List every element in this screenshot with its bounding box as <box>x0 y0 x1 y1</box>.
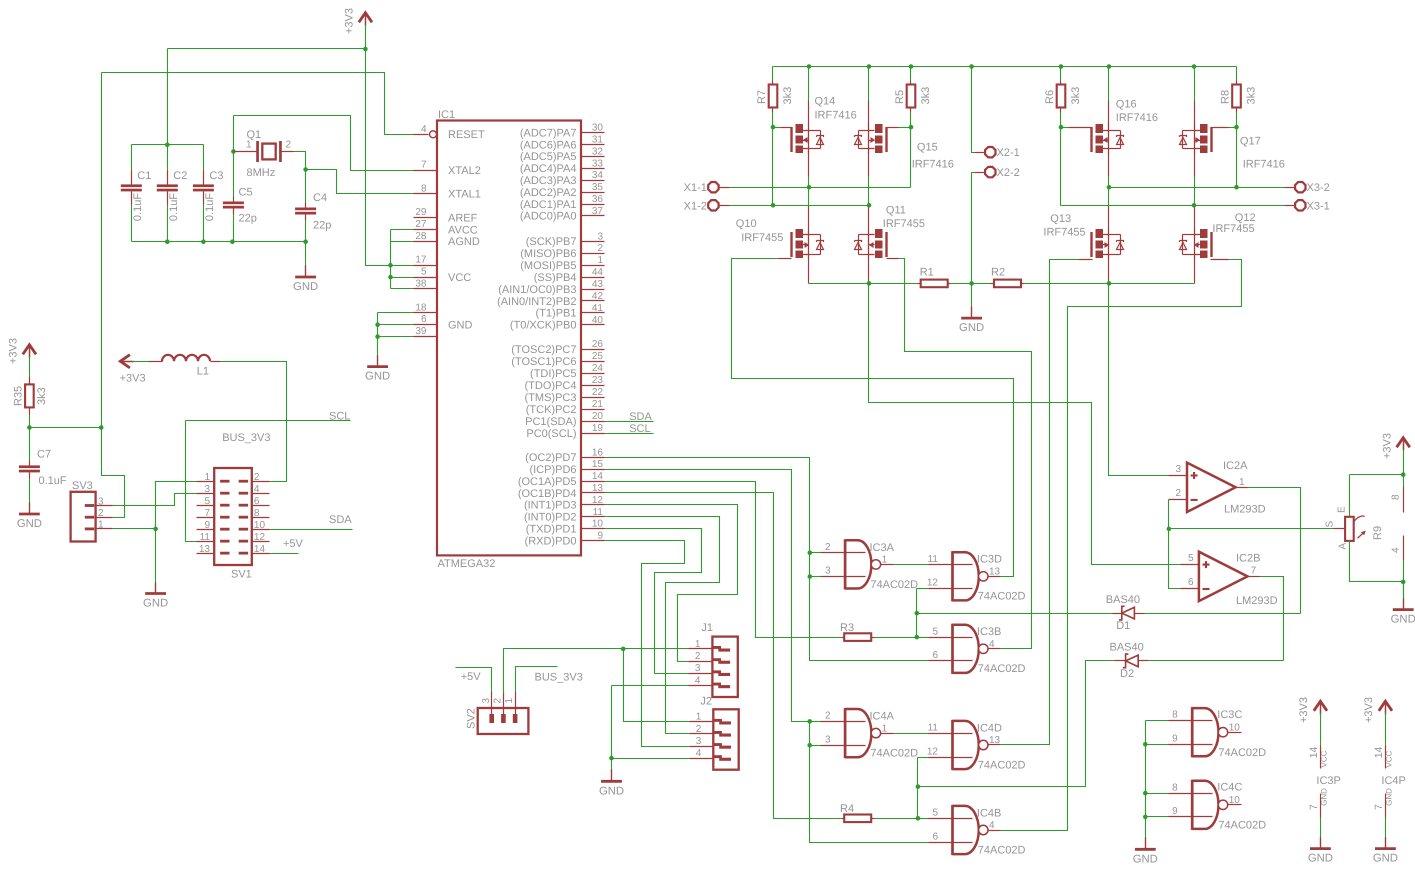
svg-text:2: 2 <box>98 508 104 519</box>
svg-text:R4: R4 <box>840 803 854 815</box>
svg-text:1: 1 <box>882 555 888 566</box>
svg-text:21: 21 <box>592 399 604 410</box>
svg-text:L1: L1 <box>197 366 209 378</box>
svg-text:36: 36 <box>592 194 604 205</box>
svg-text:C1: C1 <box>137 170 151 182</box>
svg-text:15: 15 <box>592 459 604 470</box>
svg-text:30: 30 <box>592 123 604 134</box>
svg-text:SV3: SV3 <box>72 480 93 492</box>
svg-text:C5: C5 <box>239 187 253 199</box>
svg-text:XTAL2: XTAL2 <box>448 165 481 177</box>
svg-text:D2: D2 <box>1120 668 1134 680</box>
svg-text:8: 8 <box>254 508 260 519</box>
svg-text:R35: R35 <box>13 386 25 406</box>
svg-text:6: 6 <box>1188 577 1194 588</box>
svg-text:74AC02D: 74AC02D <box>978 844 1026 856</box>
svg-text:4: 4 <box>695 675 701 686</box>
svg-text:12: 12 <box>592 495 604 506</box>
svg-text:42: 42 <box>592 291 604 302</box>
svg-text:14: 14 <box>254 544 266 555</box>
svg-text:AVCC: AVCC <box>448 224 478 236</box>
svg-text:2: 2 <box>825 542 831 553</box>
svg-text:22p: 22p <box>313 220 331 232</box>
svg-text:D1: D1 <box>1116 620 1130 632</box>
svg-text:74AC02D: 74AC02D <box>978 759 1026 771</box>
svg-text:Q10: Q10 <box>736 218 757 230</box>
svg-text:C4: C4 <box>313 192 327 204</box>
svg-text:10: 10 <box>1229 722 1241 733</box>
svg-text:X2-2: X2-2 <box>997 167 1020 179</box>
svg-text:(ADC7)PA7: (ADC7)PA7 <box>520 127 577 139</box>
svg-text:IC4B: IC4B <box>977 807 1001 819</box>
svg-text:IC3D: IC3D <box>977 554 1002 566</box>
svg-text:16: 16 <box>592 447 604 458</box>
svg-text:5: 5 <box>932 808 938 819</box>
svg-text:IC3B: IC3B <box>977 626 1001 638</box>
svg-text:1: 1 <box>696 712 702 723</box>
svg-text:Q1: Q1 <box>247 129 262 141</box>
svg-text:IC3A: IC3A <box>870 542 895 554</box>
svg-text:GND: GND <box>1320 788 1329 806</box>
svg-text:27: 27 <box>415 219 427 230</box>
svg-text:LM293D: LM293D <box>1236 595 1278 607</box>
svg-text:R7: R7 <box>756 90 768 104</box>
svg-text:4: 4 <box>696 748 702 759</box>
svg-text:GND: GND <box>365 371 390 383</box>
svg-text:6: 6 <box>932 650 938 661</box>
svg-text:7: 7 <box>204 508 210 519</box>
svg-text:41: 41 <box>592 303 604 314</box>
svg-text:R9: R9 <box>1372 526 1384 540</box>
svg-text:1: 1 <box>695 639 701 650</box>
svg-text:R1: R1 <box>920 266 934 278</box>
svg-text:IRF7416: IRF7416 <box>1243 158 1285 170</box>
svg-text:(OC2)PD7: (OC2)PD7 <box>525 452 576 464</box>
svg-text:Q17: Q17 <box>1240 135 1261 147</box>
svg-text:7: 7 <box>1373 804 1385 810</box>
svg-text:IRF7416: IRF7416 <box>815 109 857 121</box>
svg-text:74AC02D: 74AC02D <box>978 591 1026 603</box>
svg-text:8: 8 <box>1172 710 1178 721</box>
svg-text:19: 19 <box>592 423 604 434</box>
svg-text:X2-1: X2-1 <box>997 147 1020 159</box>
svg-text:(TXD)PD1: (TXD)PD1 <box>526 524 577 536</box>
svg-text:33: 33 <box>592 158 604 169</box>
svg-text:(ADC3)PA3: (ADC3)PA3 <box>520 175 577 187</box>
svg-text:3: 3 <box>825 734 831 745</box>
svg-text:4: 4 <box>989 820 995 831</box>
svg-text:GND: GND <box>1308 853 1333 865</box>
svg-text:IRF7455: IRF7455 <box>1212 223 1254 235</box>
svg-text:8: 8 <box>421 183 427 194</box>
svg-text:4: 4 <box>421 124 427 135</box>
svg-text:IRF7416: IRF7416 <box>912 158 954 170</box>
svg-text:3: 3 <box>481 698 492 704</box>
svg-text:(INT0)PD2: (INT0)PD2 <box>524 512 577 524</box>
svg-text:35: 35 <box>592 182 604 193</box>
svg-text:38: 38 <box>415 279 427 290</box>
svg-text:17: 17 <box>415 255 427 266</box>
svg-text:(MOSI)PB5: (MOSI)PB5 <box>520 260 576 272</box>
svg-text:X1-2: X1-2 <box>684 200 707 212</box>
svg-text:7: 7 <box>421 160 427 171</box>
svg-text:34: 34 <box>592 170 604 181</box>
svg-text:GND: GND <box>959 322 984 334</box>
svg-text:74AC02D: 74AC02D <box>870 579 918 591</box>
svg-text:0.1uF: 0.1uF <box>168 193 180 221</box>
svg-text:(OC1B)PD4: (OC1B)PD4 <box>518 488 577 500</box>
svg-text:C2: C2 <box>173 170 187 182</box>
svg-text:(ICP)PD6: (ICP)PD6 <box>529 464 576 476</box>
svg-text:(ADC2)PA2: (ADC2)PA2 <box>520 187 577 199</box>
svg-text:37: 37 <box>592 206 604 217</box>
svg-text:IC2B: IC2B <box>1236 553 1260 565</box>
svg-text:9: 9 <box>1172 806 1178 817</box>
svg-text:+5V: +5V <box>283 538 304 550</box>
svg-text:28: 28 <box>415 231 427 242</box>
svg-text:R6: R6 <box>1044 90 1056 104</box>
svg-text:C7: C7 <box>37 449 51 461</box>
svg-text:IC2A: IC2A <box>1223 460 1248 472</box>
svg-text:(TOSC2)PC7: (TOSC2)PC7 <box>511 344 576 356</box>
svg-text:PC0(SCL): PC0(SCL) <box>526 428 576 440</box>
svg-text:3k3: 3k3 <box>1246 87 1258 105</box>
svg-text:9: 9 <box>597 531 603 542</box>
svg-text:+3V3: +3V3 <box>120 373 146 385</box>
svg-text:40: 40 <box>592 315 604 326</box>
svg-text:(SS)PB4: (SS)PB4 <box>534 272 577 284</box>
svg-text:LM293D: LM293D <box>1224 504 1266 516</box>
svg-text:+3V3: +3V3 <box>1382 433 1394 459</box>
svg-text:13: 13 <box>989 567 1001 578</box>
svg-text:74AC02D: 74AC02D <box>1218 820 1266 832</box>
svg-text:BUS_3V3: BUS_3V3 <box>535 671 583 683</box>
svg-text:Q15: Q15 <box>917 142 938 154</box>
svg-text:24: 24 <box>592 363 604 374</box>
svg-text:+3V3: +3V3 <box>8 338 20 364</box>
svg-text:4: 4 <box>989 639 995 650</box>
svg-text:1: 1 <box>882 723 888 734</box>
svg-text:X3-1: X3-1 <box>1307 200 1330 212</box>
svg-text:GND: GND <box>293 281 318 293</box>
svg-text:AREF: AREF <box>448 212 478 224</box>
svg-text:11: 11 <box>200 532 211 543</box>
svg-text:GND: GND <box>599 785 624 797</box>
svg-text:74AC02D: 74AC02D <box>870 748 918 760</box>
svg-text:3: 3 <box>696 736 702 747</box>
svg-text:(TDO)PC4: (TDO)PC4 <box>525 380 577 392</box>
svg-text:SV2: SV2 <box>466 708 478 729</box>
svg-text:AGND: AGND <box>448 236 480 248</box>
svg-text:IC4C: IC4C <box>1217 782 1242 794</box>
svg-text:IRF7455: IRF7455 <box>1043 226 1085 238</box>
svg-text:8: 8 <box>1172 782 1178 793</box>
svg-text:IRF7455: IRF7455 <box>883 218 925 230</box>
svg-text:Q14: Q14 <box>815 96 836 108</box>
svg-text:J2: J2 <box>700 696 712 708</box>
svg-text:SDA: SDA <box>329 514 352 526</box>
svg-text:1: 1 <box>1239 477 1245 488</box>
svg-text:(TMS)PC3: (TMS)PC3 <box>525 392 577 404</box>
svg-text:3: 3 <box>98 496 104 507</box>
svg-text:(AIN0/INT2)PB2: (AIN0/INT2)PB2 <box>497 296 576 308</box>
svg-text:GND: GND <box>1373 853 1398 865</box>
svg-text:+3V3: +3V3 <box>1298 697 1310 723</box>
svg-text:2: 2 <box>696 724 702 735</box>
svg-text:S: S <box>1325 521 1336 528</box>
svg-text:29: 29 <box>415 207 427 218</box>
svg-text:R2: R2 <box>991 266 1005 278</box>
svg-text:5: 5 <box>204 496 210 507</box>
svg-text:3k3: 3k3 <box>1070 87 1082 105</box>
svg-text:Q13: Q13 <box>1050 213 1071 225</box>
svg-text:13: 13 <box>592 483 604 494</box>
svg-text:R8: R8 <box>1219 90 1231 104</box>
svg-text:10: 10 <box>254 520 266 531</box>
svg-text:ATMEGA32: ATMEGA32 <box>438 558 496 570</box>
svg-text:5: 5 <box>932 626 938 637</box>
svg-text:0.1uF: 0.1uF <box>39 475 67 487</box>
svg-text:IC4A: IC4A <box>870 711 895 723</box>
svg-text:PC1(SDA): PC1(SDA) <box>525 416 576 428</box>
svg-text:(T0/XCK)PB0: (T0/XCK)PB0 <box>510 320 577 332</box>
svg-text:BAS40: BAS40 <box>1106 594 1140 606</box>
svg-text:2: 2 <box>286 140 292 151</box>
svg-text:9: 9 <box>1172 734 1178 745</box>
svg-text:IC3C: IC3C <box>1217 709 1242 721</box>
svg-text:0.1uF: 0.1uF <box>132 193 144 221</box>
svg-text:20: 20 <box>592 411 604 422</box>
svg-text:8MHz: 8MHz <box>247 167 276 179</box>
svg-text:J1: J1 <box>701 622 713 634</box>
svg-text:10: 10 <box>592 519 604 530</box>
svg-text:25: 25 <box>592 351 604 362</box>
svg-text:3: 3 <box>825 566 831 577</box>
svg-text:(SCK)PB7: (SCK)PB7 <box>526 236 577 248</box>
svg-text:VCC: VCC <box>448 272 471 284</box>
svg-text:BAS40: BAS40 <box>1110 642 1144 654</box>
svg-text:IRF7455: IRF7455 <box>741 232 783 244</box>
svg-text:74AC02D: 74AC02D <box>978 663 1026 675</box>
svg-text:23: 23 <box>592 375 604 386</box>
svg-text:GND: GND <box>17 518 42 530</box>
svg-text:(T1)PB1: (T1)PB1 <box>536 308 577 320</box>
svg-text:(TOSC1)PC6: (TOSC1)PC6 <box>511 356 576 368</box>
svg-text:9: 9 <box>204 520 210 531</box>
svg-text:C3: C3 <box>209 170 223 182</box>
svg-text:2: 2 <box>493 698 504 704</box>
svg-text:SDA: SDA <box>629 411 652 423</box>
svg-text:39: 39 <box>415 326 427 337</box>
svg-text:+3V3: +3V3 <box>344 8 356 34</box>
svg-text:1: 1 <box>597 255 603 266</box>
svg-text:1: 1 <box>204 472 210 483</box>
svg-text:IRF7416: IRF7416 <box>1116 112 1158 124</box>
svg-text:GND: GND <box>1385 788 1394 806</box>
svg-text:IC4P: IC4P <box>1381 775 1405 787</box>
svg-text:BUS_3V3: BUS_3V3 <box>222 432 270 444</box>
svg-text:13: 13 <box>199 544 211 555</box>
svg-text:(TCK)PC2: (TCK)PC2 <box>526 404 577 416</box>
svg-text:(ADC6)PA6: (ADC6)PA6 <box>520 139 577 151</box>
svg-text:(OC1A)PD5: (OC1A)PD5 <box>518 476 577 488</box>
svg-text:+5V: +5V <box>461 671 482 683</box>
svg-text:5: 5 <box>1188 553 1194 564</box>
svg-text:2: 2 <box>254 472 260 483</box>
svg-text:11: 11 <box>928 554 939 565</box>
svg-text:GND: GND <box>143 598 168 610</box>
svg-text:3k3: 3k3 <box>36 387 48 405</box>
svg-text:14: 14 <box>592 471 604 482</box>
svg-text:0.1uF: 0.1uF <box>204 193 216 221</box>
svg-text:3k3: 3k3 <box>782 87 794 105</box>
svg-text:3: 3 <box>204 484 210 495</box>
svg-text:3: 3 <box>1175 464 1181 475</box>
svg-text:(RXD)PD0: (RXD)PD0 <box>525 535 577 547</box>
svg-text:6: 6 <box>421 314 427 325</box>
svg-text:(INT1)PD3: (INT1)PD3 <box>524 500 577 512</box>
svg-text:+3V3: +3V3 <box>1363 697 1375 723</box>
svg-text:RESET: RESET <box>448 129 485 141</box>
svg-text:3: 3 <box>695 663 701 674</box>
svg-text:2: 2 <box>825 711 831 722</box>
svg-text:4: 4 <box>254 484 260 495</box>
svg-text:3k3: 3k3 <box>920 87 932 105</box>
svg-text:13: 13 <box>989 735 1001 746</box>
svg-text:14: 14 <box>1308 746 1320 758</box>
svg-text:7: 7 <box>1251 566 1257 577</box>
svg-text:R3: R3 <box>840 622 854 634</box>
svg-text:IC1: IC1 <box>438 109 455 121</box>
svg-text:SV1: SV1 <box>231 569 252 581</box>
svg-text:3: 3 <box>597 231 603 242</box>
svg-text:GND: GND <box>1133 853 1158 865</box>
svg-text:10: 10 <box>1229 795 1241 806</box>
svg-text:X3-2: X3-2 <box>1307 182 1330 194</box>
svg-text:(ADC0)PA0: (ADC0)PA0 <box>520 211 577 223</box>
svg-text:SCL: SCL <box>329 410 350 422</box>
svg-text:26: 26 <box>592 339 604 350</box>
svg-text:2: 2 <box>597 243 603 254</box>
svg-text:31: 31 <box>592 135 604 146</box>
svg-text:2: 2 <box>695 651 701 662</box>
svg-text:SCL: SCL <box>629 423 650 435</box>
svg-text:1: 1 <box>246 140 252 151</box>
svg-text:6: 6 <box>254 496 260 507</box>
svg-text:(ADC4)PA4: (ADC4)PA4 <box>520 163 577 175</box>
svg-text:(ADC1)PA1: (ADC1)PA1 <box>520 199 577 211</box>
svg-text:R5: R5 <box>894 90 906 104</box>
svg-text:A: A <box>1338 543 1349 550</box>
svg-text:(MISO)PB6: (MISO)PB6 <box>520 248 576 260</box>
svg-text:8: 8 <box>1391 494 1402 500</box>
svg-text:18: 18 <box>415 302 427 313</box>
svg-text:32: 32 <box>592 146 604 157</box>
svg-text:74AC02D: 74AC02D <box>1218 747 1266 759</box>
svg-text:GND: GND <box>1391 614 1415 626</box>
svg-text:XTAL1: XTAL1 <box>448 189 481 201</box>
svg-text:12: 12 <box>927 578 939 589</box>
svg-text:X1-1: X1-1 <box>684 182 707 194</box>
svg-text:44: 44 <box>592 267 604 278</box>
svg-text:IC3P: IC3P <box>1316 775 1340 787</box>
svg-text:1: 1 <box>504 698 515 704</box>
svg-text:5: 5 <box>421 267 427 278</box>
svg-text:(ADC5)PA5: (ADC5)PA5 <box>520 151 577 163</box>
svg-text:1: 1 <box>98 520 104 531</box>
svg-text:11: 11 <box>593 507 604 518</box>
svg-text:7: 7 <box>1308 804 1320 810</box>
svg-text:22: 22 <box>592 387 604 398</box>
svg-text:6: 6 <box>932 831 938 842</box>
svg-text:(TDI)PC5: (TDI)PC5 <box>530 368 576 380</box>
svg-text:E: E <box>1337 506 1348 513</box>
svg-text:4: 4 <box>1391 547 1402 553</box>
svg-text:(AIN1/OC0)PB3: (AIN1/OC0)PB3 <box>498 284 576 296</box>
svg-text:2: 2 <box>1175 488 1181 499</box>
svg-text:14: 14 <box>1373 746 1385 758</box>
svg-text:11: 11 <box>928 723 939 734</box>
svg-text:VCC: VCC <box>1385 750 1394 767</box>
svg-text:43: 43 <box>592 279 604 290</box>
svg-text:12: 12 <box>927 746 939 757</box>
svg-text:12: 12 <box>254 532 266 543</box>
svg-text:IC4D: IC4D <box>977 722 1002 734</box>
svg-text:VCC: VCC <box>1320 750 1329 767</box>
svg-text:22p: 22p <box>239 212 257 224</box>
svg-text:Q11: Q11 <box>886 204 906 216</box>
svg-text:GND: GND <box>448 320 473 332</box>
svg-text:Q16: Q16 <box>1116 99 1137 111</box>
